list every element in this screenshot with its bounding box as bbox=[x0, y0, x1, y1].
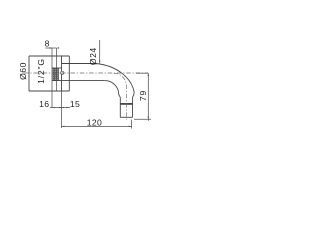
tube top and outer bend bbox=[62, 64, 135, 118]
nut hatched bbox=[53, 68, 59, 80]
tube end cap bbox=[120, 116, 132, 118]
flange top bbox=[29, 55, 69, 57]
dim 16/15 line bbox=[50, 107, 70, 109]
svg-text:16: 16 bbox=[39, 99, 49, 109]
centerline bend bbox=[114, 73, 127, 120]
dim 79 line bbox=[147, 73, 149, 121]
ext 79 bottom bbox=[134, 118, 151, 120]
svg-text:79: 79 bbox=[138, 90, 148, 101]
svg-text:15: 15 bbox=[70, 99, 80, 109]
centerline horizontal bbox=[24, 73, 148, 120]
svg-text:1/2"G: 1/2"G bbox=[36, 58, 46, 84]
texts bbox=[18, 38, 148, 127]
svg-text:Ø24: Ø24 bbox=[88, 47, 98, 65]
ext right 120 bbox=[131, 120, 133, 129]
dim 8 line bbox=[45, 47, 56, 49]
ring edge bbox=[68, 56, 70, 91]
svg-text:120: 120 bbox=[87, 117, 102, 127]
ext 61.5 to 120dim bbox=[61, 91, 63, 128]
svg-text:Ø60: Ø60 bbox=[18, 62, 28, 80]
arrows bbox=[49, 47, 149, 127]
seam ring bbox=[120, 103, 133, 105]
flange bottom bbox=[29, 90, 69, 92]
dia24 leader bbox=[99, 40, 101, 63]
svg-text:8: 8 bbox=[45, 38, 50, 48]
stub top bbox=[52, 67, 62, 69]
dim 120 line bbox=[62, 125, 132, 127]
inner bend bbox=[105, 81, 121, 118]
tube bottom bbox=[52, 80, 105, 82]
flange face bbox=[61, 56, 63, 91]
dim 8 ext lines bbox=[51, 48, 53, 108]
screw circle bbox=[61, 71, 64, 74]
wall bbox=[28, 56, 30, 91]
ext 79 top horiz bbox=[136, 72, 148, 74]
